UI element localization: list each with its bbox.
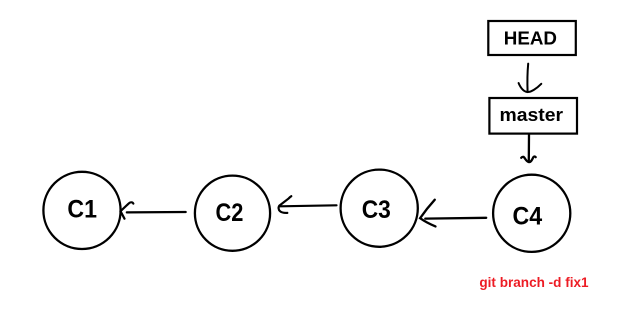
- svg-text:HEAD: HEAD: [504, 29, 557, 49]
- node C1: [43, 172, 120, 249]
- wire arrow master to C4: [521, 135, 536, 163]
- wire arrow C3 to C2: [279, 196, 337, 213]
- svg-text:C4: C4: [512, 203, 542, 231]
- node C2: [195, 176, 270, 251]
- label HEAD: [504, 29, 557, 49]
- box master: [489, 98, 577, 134]
- node C4: [493, 175, 570, 252]
- svg-text:git branch -d fix1: git branch -d fix1: [479, 275, 589, 290]
- wire arrow C2 to C1: [121, 202, 186, 218]
- label C4: [512, 203, 542, 231]
- command text git branch -d fix1: [479, 275, 589, 290]
- box HEAD: [488, 21, 576, 55]
- label C1: [67, 196, 97, 224]
- svg-text:C1: C1: [67, 196, 97, 224]
- node C3: [341, 170, 418, 247]
- label C3: [362, 196, 391, 224]
- label C2: [216, 199, 244, 227]
- wire arrow C4 to C3: [420, 200, 486, 227]
- wire arrow HEAD to master: [519, 64, 542, 93]
- svg-text:master: master: [500, 105, 564, 126]
- svg-text:C3: C3: [362, 196, 391, 224]
- svg-text:C2: C2: [216, 199, 244, 227]
- label master: [500, 105, 564, 126]
